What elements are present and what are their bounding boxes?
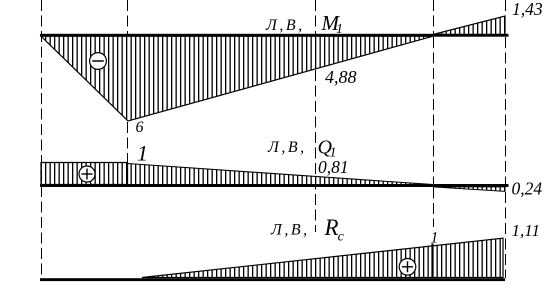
svg-text:Л,В,: Л,В, [270,222,310,239]
baseline of Q1 diagram [40,184,509,187]
svg-text:1: 1 [137,141,148,166]
svg-text:1,11: 1,11 [512,221,541,240]
influence line M1 negative area (hatched triangle) [41,36,433,121]
node axis line C (middle dashed construction line) [315,0,317,232]
node axis line E (right dashed construction line) [505,0,507,278]
baseline of M1 diagram [40,34,509,37]
influence line Rc positive area (hatched triangle) [142,238,503,277]
svg-text:4,88: 4,88 [325,67,357,87]
svg-text:Rc: Rc [324,215,345,245]
influence line Q1 positive slant area (hatched) [128,164,434,185]
influence line Q1 negative area (hatched) [433,187,505,192]
svg-text:1: 1 [431,230,439,247]
unit ordinate tick on Rc diagram [431,244,433,278]
plus sign circle on Rc diagram [399,259,416,276]
influence line Q1 positive flat area (hatched) [41,163,128,185]
node axis line A (left dashed construction line) [41,0,43,278]
svg-text:Л,В,: Л,В, [265,17,305,34]
svg-text:6: 6 [136,119,144,136]
svg-text:M1: M1 [321,11,344,37]
node axis line B (dashed construction line at section 1) [127,0,129,163]
baseline of Rc diagram [40,278,505,281]
svg-text:0,81: 0,81 [318,157,349,177]
svg-text:1,43: 1,43 [512,0,543,19]
plus sign circle on Q1 diagram [79,166,95,182]
influence line M1 positive area (hatched triangle) [433,16,505,35]
minus sign circle on M1 diagram [90,53,107,70]
node axis line D (dashed construction line at support) [433,0,435,227]
svg-text:0,24: 0,24 [512,179,543,199]
svg-text:Л,В,: Л,В, [267,139,307,156]
